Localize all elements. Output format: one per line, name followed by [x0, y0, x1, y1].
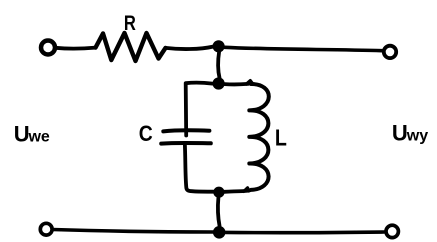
svg-text:L: L	[275, 125, 287, 151]
wire	[225, 47, 384, 50]
wire	[166, 47, 214, 49]
wire	[52, 230, 213, 233]
wire	[225, 82, 248, 86]
wire	[218, 51, 219, 78]
wire	[226, 230, 385, 234]
capacitor C	[161, 130, 211, 143]
wire	[186, 83, 213, 136]
terminal: input bottom	[40, 223, 52, 235]
terminal: output bottom	[386, 225, 398, 237]
terminal: output top	[384, 46, 396, 58]
junction node (top)	[213, 40, 225, 52]
svg-text:Uwy: Uwy	[392, 120, 428, 145]
svg-text:Uwe: Uwe	[14, 121, 50, 146]
junction node (LC bottom)	[213, 187, 224, 198]
svg-text:C: C	[139, 121, 153, 146]
terminal: input top	[41, 41, 55, 55]
wire	[185, 146, 213, 192]
resistor R	[96, 33, 166, 61]
wire (pen hook bottom)	[244, 188, 248, 192]
wire	[55, 46, 95, 51]
wire (pen hook top)	[247, 81, 253, 84]
wire	[218, 198, 220, 227]
wire	[224, 191, 248, 192]
svg-text:R: R	[124, 11, 136, 35]
junction node (bottom rail)	[213, 226, 226, 239]
junction node (LC top)	[213, 77, 225, 89]
inductor L	[249, 84, 269, 191]
